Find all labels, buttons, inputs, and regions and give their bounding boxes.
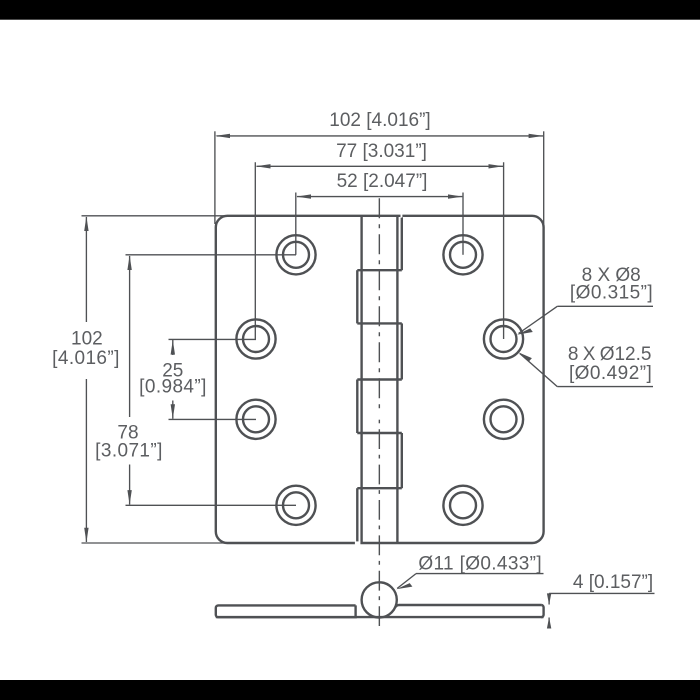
top letterbox bar [0, 0, 700, 20]
dimension 25: upper arrow shaft [172, 340, 174, 355]
svg-text:4 [0.157”]: 4 [0.157”] [573, 572, 653, 593]
svg-text:[3.071”]: [3.071”] [95, 441, 163, 462]
svg-text:52 [2.047”]: 52 [2.047”] [337, 171, 428, 192]
dimension 78: extension line top (from top-left hole) [126, 254, 297, 256]
knuckle divider 2 [357, 322, 402, 324]
svg-text:102: 102 [71, 329, 103, 350]
hole mid-lower-left inner [243, 406, 269, 432]
label D11 barrel: leader line [397, 574, 416, 589]
side view right leaf top edge [399, 604, 541, 606]
hole top-left outer [276, 235, 315, 274]
svg-text:77 [3.031”]: 77 [3.031”] [336, 141, 427, 162]
hole mid-upper-right inner [491, 326, 517, 352]
pin centerline dot [378, 420, 380, 424]
knuckle 6 left curl edge [356, 488, 358, 543]
dimension 102 top: extension line right [543, 131, 545, 224]
svg-text:8 X Ø12.5: 8 X Ø12.5 [568, 344, 652, 365]
knuckle barrel left edge [360, 216, 362, 543]
label 8xD12.5: leader shelf [557, 386, 653, 388]
side view right leaf fillet [395, 605, 399, 608]
knuckle 2 left curl edge [356, 270, 358, 323]
dimension 102 left: top arrowhead [84, 216, 88, 231]
dimension 4 thickness: lower arrow shaft [548, 618, 550, 629]
hole mid-upper-right outer [484, 319, 523, 358]
label D11 barrel: arrowhead [396, 583, 412, 589]
knuckle barrel right edge [396, 216, 398, 543]
svg-text:[Ø0.492”]: [Ø0.492”] [569, 363, 652, 384]
label 8xD12.5: arrowhead [518, 352, 532, 361]
dimension 52: extension line right (from top-right hole) [462, 193, 464, 255]
dimension 102 top: right arrowhead [529, 134, 544, 138]
knuckle divider 1 [357, 269, 402, 271]
knuckle 5 right curl edge [401, 433, 403, 488]
dimension 52: dimension line [297, 196, 462, 198]
hole bottom-left inner [283, 492, 309, 518]
knuckle 3 right curl edge [401, 323, 403, 379]
svg-text:102 [4.016”]: 102 [4.016”] [329, 110, 430, 131]
label 8xD8: leader shelf [557, 305, 653, 307]
side view bottom face line [216, 616, 544, 618]
hole top-right outer [443, 235, 482, 274]
dimension 77: right arrowhead [489, 164, 504, 168]
dimension 102 left: dimension line upper part [85, 217, 87, 322]
bottom edge break at left leaf cut [355, 541, 361, 545]
svg-text:[Ø0.315”]: [Ø0.315”] [570, 283, 653, 304]
dimension 4 thickness: upper arrow shaft [548, 593, 550, 604]
label D11 barrel: leader shelf [416, 573, 544, 575]
svg-text:[0.984”]: [0.984”] [139, 377, 207, 398]
knuckle 4 left curl edge [356, 380, 358, 434]
dimension 77: left arrowhead [256, 164, 271, 168]
svg-text:Ø11 [Ø0.433”]: Ø11 [Ø0.433”] [418, 554, 542, 575]
label 8xD8: leader line [519, 306, 558, 333]
label 8xD8: arrowhead [517, 328, 533, 334]
hole bottom-right outer [443, 486, 482, 525]
knuckle divider 5 [357, 487, 402, 489]
dimension 77: dimension line [257, 165, 504, 167]
dimension 102 left: dimension line lower part [85, 379, 87, 542]
dimension 102 top: extension line left [214, 131, 216, 224]
dimension 52: left arrowhead [296, 194, 311, 198]
dimension 102 top: dimension line [217, 135, 544, 137]
dimension 25: lower arrow shaft [172, 401, 174, 419]
dimension 4 thickness: upper arrowhead [547, 593, 551, 604]
knuckle divider 3 [357, 378, 402, 380]
hole top-right inner [450, 242, 476, 268]
side view barrel circle [362, 582, 397, 617]
dimension 4 thickness: lower arrowhead [547, 617, 551, 628]
top edge break at right leaf cut [401, 213, 403, 217]
hinge leaf outline (front view rounded square) [216, 216, 544, 543]
svg-text:[4.016”]: [4.016”] [52, 348, 120, 369]
dimension 78: dimension line lower part [129, 465, 131, 505]
bottom letterbox bar [0, 680, 700, 700]
dimension 77: extension line left (from mid-upper-left hole) [254, 162, 256, 339]
hole mid-lower-left outer [236, 400, 275, 439]
hole mid-upper-left outer [236, 319, 275, 358]
dimension 52: right arrowhead [448, 194, 463, 198]
dimension 52: extension line left (from top-left hole) [295, 193, 297, 255]
hole mid-upper-left inner [243, 326, 269, 352]
hole bottom-left outer [276, 486, 315, 525]
dimension 78: bottom arrowhead [127, 490, 131, 505]
knuckle divider 4 [357, 432, 402, 434]
knuckle 1 right curl edge [401, 216, 403, 270]
dimension 102 left: bottom arrowhead [84, 528, 88, 543]
dimension 102 top: left arrowhead [215, 134, 230, 138]
dimension 102 left: extension line top [82, 215, 229, 217]
hole mid-lower-right inner [491, 406, 517, 432]
side view right leaf right end [541, 605, 543, 617]
dimension 77: extension line right (from mid-upper-right hole) [503, 162, 505, 339]
dimension 78: top arrowhead [127, 255, 131, 270]
hole mid-lower-right outer [484, 400, 523, 439]
dimension 25: lower arrowhead [171, 404, 175, 419]
dimension 78: extension line bottom (from bottom-left hole) [126, 504, 297, 506]
dimension 25: extension line bottom (from mid-lower-left hole) [169, 418, 257, 420]
hole top-left inner [283, 242, 309, 268]
side view left leaf plate [216, 605, 356, 617]
dimension 4 thickness: shelf [549, 592, 654, 594]
dimension 78: dimension line upper part [129, 256, 131, 417]
dimension 25: extension line top (from mid-upper-left hole) [169, 338, 257, 340]
label 8xD12.5: leader line [520, 354, 558, 387]
dimension 102 left: extension line bottom [82, 542, 229, 544]
pin centerline lower (dash-dot) [378, 429, 380, 627]
pin centerline upper (dash-dot) [378, 198, 380, 414]
dimension 25: upper arrowhead [171, 340, 175, 355]
hole bottom-right inner [450, 492, 476, 518]
